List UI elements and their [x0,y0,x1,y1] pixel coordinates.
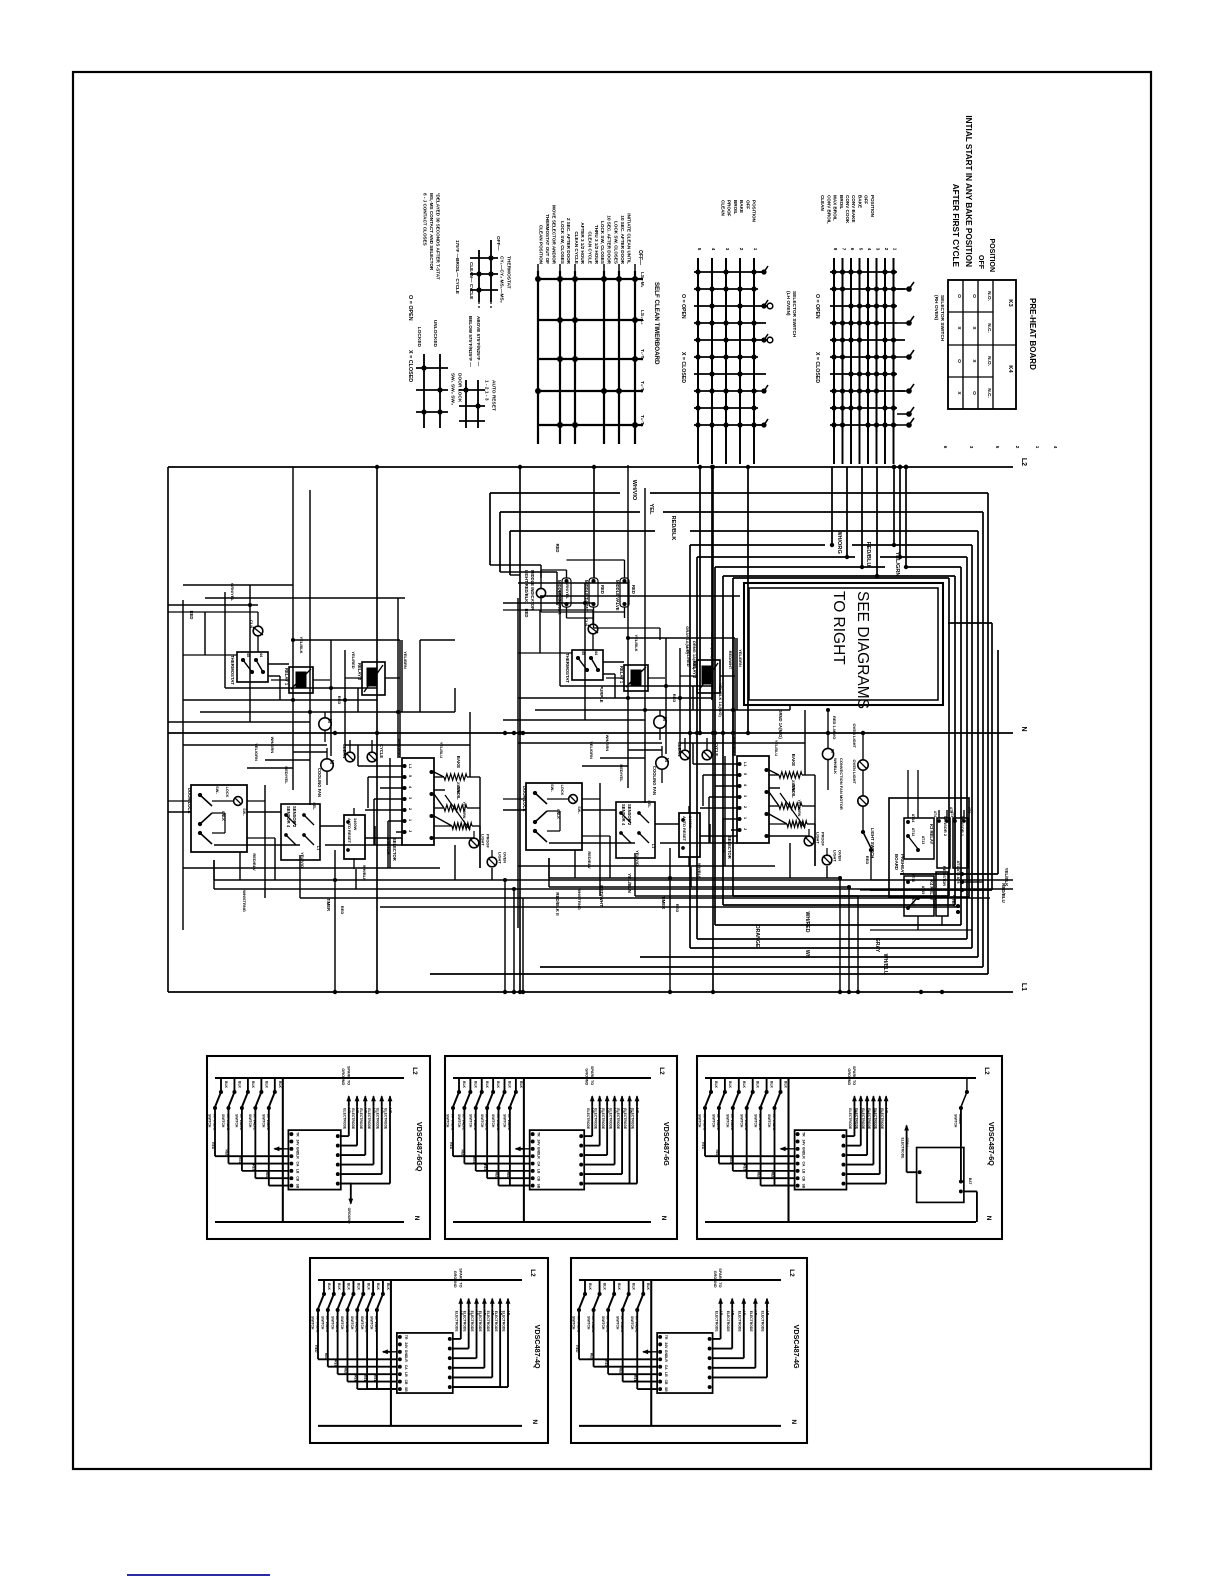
svg-text:RED: RED [337,696,342,705]
svg-text:LR: LR [537,1154,541,1159]
svg-text:RF VALVE: RF VALVE [345,1316,349,1333]
svg-text:CONV COOK: CONV COOK [845,195,850,224]
svg-text:ELECTRODE: ELECTRODE [478,1311,482,1333]
svg-text:WHT 1A(M/G): WHT 1A(M/G) [710,632,715,658]
svg-text:4: 4 [867,248,872,251]
svg-text:RED: RED [483,1164,487,1172]
svg-text:BLK: BLK [742,1081,746,1089]
svg-text:LOCK SW, CLOSES: LOCK SW, CLOSES [600,221,605,264]
svg-text:VDSC487-6GQ: VDSC487-6GQ [415,1122,424,1172]
svg-text:SWITCH: SWITCH [753,1114,757,1128]
svg-text:SWITCH: SWITCH [370,1316,374,1330]
svg-text:THERMOSTAT: THERMOSTAT [505,256,511,289]
svg-text:BLK: BLK [485,1081,489,1089]
svg-text:RED: RED [211,1142,215,1150]
svg-text:24V: 24V [404,1342,408,1349]
svg-text:OFF: OFF [864,195,869,204]
bus L2 [168,466,1013,468]
svg-text:RED/BLK: RED/BLK [670,516,676,541]
svg-text:SWITCH: SWITCH [954,1114,958,1128]
svg-text:ELECTRODE: ELECTRODE [462,1311,466,1333]
svg-text:LR: LR [802,1154,806,1159]
svg-text:WH/STRNG: WH/STRNG [242,890,247,912]
svg-text:BLK: BLK [714,1081,718,1089]
svg-text:BLK: BLK [278,1081,282,1089]
svg-text:8: 8 [833,248,838,251]
svg-text:SWITCH: SWITCH [330,1316,334,1330]
svg-text:GROUND: GROUND [713,1271,717,1288]
svg-text:BLK: BLK [462,1081,466,1089]
svg-text:OFF—: OFF— [637,250,643,265]
svg-text:LR: LR [664,1357,668,1362]
svg-text:SW₁: SW₁ [215,786,219,794]
svg-text:SEE DIAGRAMS: SEE DIAGRAMS [854,591,871,709]
selector switch device [358,739,474,868]
svg-text:RED: RED [555,544,560,553]
svg-text:TIMER: TIMER [326,898,331,911]
svg-text:BLK: BLK [224,1081,228,1089]
svg-text:(RH OVEN): (RH OVEN) [933,295,939,320]
svg-text:SWITCH: SWITCH [615,1316,619,1330]
svg-text:ELECTRODE: ELECTRODE [861,1108,865,1130]
svg-text:AUTO RESET: AUTO RESET [490,380,496,411]
svg-text:ELECTRODE: ELECTRODE [586,1108,590,1130]
wires selector to loops [892,465,908,569]
svg-text:AT2: AT2 [949,807,953,813]
svg-text:ELECTRODE: ELECTRODE [726,1311,730,1333]
svg-text:RED: RED [715,1150,719,1158]
svg-text:SWITCH: SWITCH [350,1316,354,1330]
svg-text:AT16: AT16 [911,874,915,883]
svg-text:POSITION: POSITION [752,200,757,223]
svg-text:RF VALVE: RF VALVE [266,1114,270,1131]
svg-text:N: N [790,1420,797,1425]
svg-text:LR: LR [295,1154,299,1159]
svg-text:SPARK TO: SPARK TO [346,1066,350,1085]
svg-text:ELECTRODE: ELECTRODE [367,1108,371,1130]
svg-text:BLK: BLK [588,1283,592,1291]
svg-text:BAT: BAT [968,1178,972,1186]
svg-text:BAKE: BAKE [456,756,461,769]
svg-text:ELECTRODE: ELECTRODE [749,1311,753,1333]
svg-text:ELECTRODE: ELECTRODE [608,1108,612,1130]
svg-text:O: O [956,294,962,298]
svg-text:T₅-T₆: T₅-T₆ [639,415,645,427]
preheat board outline [889,798,969,897]
svg-text:L1: L1 [316,846,320,850]
svg-text:CLEAN CYCLE: CLEAN CYCLE [574,231,579,264]
svg-text:RED: RED [757,1172,761,1180]
svg-text:CLEAN POSITION: CLEAN POSITION [539,225,544,265]
svg-text:BLK: BLK [756,1081,760,1089]
svg-text:L2: L2 [411,1067,418,1075]
svg-text:CLEAN: CLEAN [820,195,825,212]
cycle lamp [367,740,384,762]
loop vertical labels [685,626,733,717]
svg-text:BLK: BLK [728,1081,732,1089]
svg-text:O: O [971,294,977,298]
svg-text:5: 5 [995,446,1000,449]
svg-text:RED: RED [340,906,345,915]
svg-text:RED: RED [334,1360,338,1368]
svg-text:J: J [408,830,412,832]
svg-text:SPARK TO: SPARK TO [458,1268,462,1287]
svg-text:RED: RED [251,1164,255,1172]
svg-text:10 SEC. AFTER DOOR: 10 SEC. AFTER DOOR [607,215,612,264]
middle igniter [557,570,571,618]
selector column feeds into diagram [698,465,879,735]
svg-text:RF VALVE: RF VALVE [450,1114,454,1131]
svg-text:GROUND: GROUND [347,1208,351,1224]
svg-text:K4: K4 [1007,365,1013,373]
svg-text:AT10: AT10 [932,896,936,904]
svg-text:BAKE: BAKE [857,195,862,208]
svg-text:N.C.: N.C. [986,388,992,398]
svg-text:L2: L2 [1020,458,1027,466]
svg-text:1: 1 [1035,446,1040,449]
svg-text:SWITCH: SWITCH [698,1114,702,1128]
svg-text:RF VALVE: RF VALVE [496,1114,500,1131]
svg-text:GROUND: GROUND [453,1271,457,1288]
griddle wiring [490,544,660,640]
svg-text:6: 6 [943,446,948,449]
relay 1 [271,667,330,693]
sub-diagram box VDSC487-4G [571,1258,807,1443]
svg-text:LB: LB [295,1169,299,1174]
svg-text:¹DELAYED 30 SECONDS AFTER T-ST: ¹DELAYED 30 SECONDS AFTER T-STAT [435,193,440,280]
svg-text:BLK: BLK [386,1283,390,1291]
svg-text:RED: RED [575,1345,579,1353]
svg-text:CA: CA [404,1365,408,1370]
svg-text:AT5: AT5 [956,869,960,876]
svg-text:SB: SB [802,1184,806,1189]
svg-text:ELECTRODE: ELECTRODE [359,1108,363,1130]
svg-text:RED: RED [472,1157,476,1165]
svg-text:RED: RED [460,1150,464,1158]
svg-text:RELAY 1: RELAY 1 [284,668,289,686]
svg-text:GROUND: GROUND [847,1068,851,1085]
svg-text:POSITION: POSITION [870,195,875,218]
svg-text:YEL/VIO: YEL/VIO [300,852,305,868]
svg-text:LB: LB [404,1372,408,1377]
svg-text:BLK: BLK [237,1081,241,1089]
sub-diagram box VDSC487-6Q [697,1056,1002,1239]
clean resistor and lamp [434,795,491,848]
wire cluster feeder [168,600,258,930]
svg-text:L1: L1 [408,764,412,768]
sub-diagram box VDSC487-6G [445,1056,677,1239]
svg-text:DOOR LOCK: DOOR LOCK [456,373,462,403]
svg-text:RED/BLU: RED/BLU [865,542,871,567]
svg-text:RF VALVE: RF VALVE [507,1114,511,1131]
svg-text:SWITCH: SWITCH [572,1316,576,1330]
svg-text:SWITCH: SWITCH [491,1114,495,1128]
svg-text:RESISTOR: RESISTOR [942,866,947,886]
box SEE DIAGRAMS TO RIGHT [744,583,943,709]
svg-text:WH/ORG: WH/ORG [836,530,842,554]
svg-text:RED: RED [604,1360,608,1368]
footer link underline [127,1574,270,1576]
selector switch LH oven labels [680,200,797,383]
svg-text:PURPLE: PURPLE [599,686,604,703]
svg-text:BLK: BLK [632,1283,636,1291]
svg-text:RF VALVE: RF VALVE [758,1114,762,1131]
svg-text:RED: RED [224,1150,228,1158]
svg-text:ELECTRODE: ELECTRODE [502,1311,506,1333]
svg-text:ELECTRODE: ELECTRODE [761,1311,765,1333]
svg-text:ELECTRODE: ELECTRODE [455,1311,459,1333]
svg-text:1400W: 1400W [353,818,358,831]
svg-text:RED: RED [324,1353,328,1361]
svg-text:SELECTOR SWITCH: SELECTOR SWITCH [791,291,797,338]
svg-text:3: 3 [876,248,881,251]
svg-text:AFTER FIRST CYCLE: AFTER FIRST CYCLE [951,184,960,268]
svg-text:AT12: AT12 [911,828,915,837]
svg-text:SWITCH: SWITCH [248,1114,252,1128]
svg-text:RED: RED [590,1353,594,1361]
selector switch RH oven labels [814,195,945,383]
svg-text:RF VALVE: RF VALVE [355,1316,359,1333]
auto reset legend symbol [459,380,485,428]
timerboard column notes [539,205,632,265]
svg-text:SWITCH: SWITCH [739,1114,743,1128]
svg-text:SWITCH: SWITCH [235,1114,239,1128]
svg-text:5: 5 [408,775,412,777]
svg-text:TO RIGHT: TO RIGHT [830,591,847,665]
right side verticals [870,623,998,890]
svg-text:LIGHT: LIGHT [497,852,502,864]
svg-text:BLK: BLK [473,1081,477,1089]
pre-heat board table [948,280,1016,409]
svg-text:8 - J CONTACT CLOSES: 8 - J CONTACT CLOSES [423,193,428,246]
svg-text:SWITCH: SWITCH [712,1114,716,1128]
svg-text:YEL/GRN: YEL/GRN [462,802,466,819]
relay 2 [345,662,400,695]
svg-text:CLEAN: CLEAN [721,200,726,217]
svg-text:GROUND: GROUND [585,1068,589,1085]
svg-text:10 SEC. AFTER DOOR: 10 SEC. AFTER DOOR [620,215,625,264]
svg-text:RED: RED [771,1172,775,1180]
svg-text:ELECTRODE: ELECTRODE [880,1108,884,1130]
convection fan motor RH [822,708,843,810]
svg-text:RED/WHT: RED/WHT [599,885,604,907]
svg-text:1: 1 [753,248,758,251]
svg-text:GROUND: GROUND [341,1068,345,1085]
svg-text:O = OPEN: O = OPEN [680,294,686,319]
svg-text:RED: RED [189,611,194,620]
svg-text:YEL/BLN: YEL/BLN [627,873,632,893]
svg-text:GRN/YEL: GRN/YEL [230,583,235,601]
svg-text:WH/GRN: WH/GRN [270,737,275,754]
svg-text:SW₁ SW₂ SW₃: SW₁ SW₂ SW₃ [450,373,456,405]
left-only wires [420,640,455,712]
svg-text:SELF CLEAN TIMERBOARD: SELF CLEAN TIMERBOARD [653,282,660,365]
svg-text:WH/RED: WH/RED [804,911,810,932]
svg-text:RED: RED [343,1368,347,1376]
svg-text:TR: TR [537,1132,541,1137]
svg-text:ORANGE: ORANGE [754,925,760,948]
svg-text:3: 3 [725,248,730,251]
svg-text:OVEN LIGHT: OVEN LIGHT [852,724,857,749]
light switch [861,824,889,880]
svg-text:O = OPEN: O = OPEN [407,295,413,321]
svg-text:L2: L2 [529,1269,536,1277]
svg-text:L2: L2 [658,1067,665,1075]
svg-text:RED/YEL: RED/YEL [284,766,289,784]
svg-text:BELOW 575°F/N25°F —: BELOW 575°F/N25°F — [468,316,473,367]
thermostat legend symbol [470,240,498,310]
svg-text:ELECTRODE: ELECTRODE [494,1311,498,1333]
svg-text:X = CLOSED: X = CLOSED [680,352,686,383]
door lock legend symbol [416,354,448,428]
svg-text:K3 RELAY: K3 RELAY [929,824,934,845]
svg-text:2: 2 [408,808,412,810]
svg-text:T₃-T₄: T₃-T₄ [639,381,645,394]
svg-text:1: 1 [408,819,412,821]
svg-text:RF VALVE: RF VALVE [335,1316,339,1333]
svg-text:OVEN LIGHT: OVEN LIGHT [852,760,857,785]
svg-text:2: 2 [884,248,889,251]
svg-text:RED: RED [743,1164,747,1172]
door lock legend labels [416,320,462,405]
svg-text:RED 1-M/VO: RED 1-M/VO [832,716,837,739]
note INTIAL START IN ANY BAKE POSITION AFTER FIRST CYCLE [951,115,973,267]
clean lamp [342,740,355,762]
svg-text:SWITCH: SWITCH [321,1316,325,1330]
svg-text:VDSC487-4G: VDSC487-4G [792,1325,801,1369]
border frame [73,72,1151,1469]
svg-text:SWITCH: SWITCH [630,1316,634,1330]
svg-text:BLK: BLK [327,1283,331,1291]
svg-text:COOLING FAN: COOLING FAN [317,768,322,797]
svg-text:BLK: BLK [264,1081,268,1089]
svg-text:UNLOCKED: UNLOCKED [432,320,438,348]
svg-text:OFF: OFF [745,200,750,209]
selector switch RH oven grid [830,258,914,432]
broil element resistor [434,786,480,811]
svg-text:SWITCH: SWITCH [586,1316,590,1330]
table header POSITION OFF [977,239,995,272]
svg-text:M: M [328,760,334,764]
svg-text:BROIL: BROIL [839,195,844,209]
svg-text:BROIL: BROIL [456,786,461,800]
svg-text:AT14: AT14 [911,814,915,823]
svg-text:3: 3 [969,446,974,449]
svg-text:SB: SB [664,1387,668,1392]
svg-text:O = OPEN: O = OPEN [814,294,820,319]
svg-text:LIGHT RED/BLK: LIGHT RED/BLK [524,570,529,602]
svg-text:RF VALVE: RF VALVE [635,1316,639,1333]
wire loop YEL/GRN [715,552,961,933]
svg-text:WH/BLK: WH/BLK [833,758,838,774]
svg-text:24V: 24V [295,1139,299,1146]
bus N [168,732,1013,734]
svg-text:ELECTRODE: ELECTRODE [631,1108,635,1130]
svg-text:YEL/RED: YEL/RED [351,651,356,668]
door lock switch box [168,785,275,852]
thermostat legend labels [455,236,511,303]
svg-text:175°F —BROIL— CYCLE: 175°F —BROIL— CYCLE [455,240,460,294]
indicator lamp top [249,612,263,652]
preheat terminals AT1 AT5 AT8 [952,861,964,915]
svg-text:SENSOR 2: SENSOR 2 [943,816,948,837]
svg-text:AFTER 3 1/2 HOUR: AFTER 3 1/2 HOUR [580,222,585,264]
svg-text:RF VALVE: RF VALVE [253,1114,257,1131]
svg-text:CA: CA [295,1162,299,1167]
svg-text:RF VALVE: RF VALVE [374,1316,378,1333]
svg-text:BOARD: BOARD [894,854,899,870]
svg-text:RED: RED [600,585,605,594]
svg-text:RED: RED [619,1368,623,1376]
svg-text:ELECTRODE: ELECTRODE [593,1108,597,1130]
svg-text:THRU 3 1/2 HOUR: THRU 3 1/2 HOUR [594,225,599,265]
oven light lamps RH [852,724,868,824]
svg-text:LB: LB [664,1372,668,1377]
middle valve [615,570,636,618]
svg-text:CB: CB [404,1380,408,1385]
svg-text:CA: CA [537,1162,541,1167]
svg-text:RED: RED [701,1142,705,1150]
svg-text:CB: CB [802,1176,806,1181]
svg-text:TR: TR [664,1335,668,1340]
svg-text:N: N [531,1420,538,1425]
svg-text:CB: CB [295,1176,299,1181]
right oven cluster (duplicate) [503,465,858,990]
svg-text:SB: SB [537,1184,541,1189]
svg-text:SWITCH: SWITCH [503,1114,507,1128]
svg-text:4: 4 [711,248,716,251]
svg-text:2 SEC. AFTER DOOR: 2 SEC. AFTER DOOR [566,218,571,265]
selector switch terminal numbers [943,446,1058,449]
svg-text:RF VALVE: RF VALVE [473,1114,477,1131]
K3 relay [904,814,934,859]
svg-text:X = CLOSED: X = CLOSED [407,350,413,382]
svg-text:RF VALVE: RF VALVE [315,1316,319,1333]
svg-text:ELECTRODE: ELECTRODE [351,1108,355,1130]
svg-text:RED: RED [363,1375,367,1383]
svg-text:6: 6 [850,248,855,251]
svg-text:5: 5 [697,248,702,251]
svg-text:AT13: AT13 [921,836,925,845]
svg-text:RED/BLV: RED/BLV [252,853,257,871]
svg-text:24V: 24V [664,1342,668,1349]
svg-text:AT6: AT6 [967,807,971,813]
svg-text:SWITCH: SWITCH [767,1114,771,1128]
wire loop RED/BLU [697,542,967,948]
svg-text:BLK: BLK [251,1081,255,1089]
svg-text:SELECTOR: SELECTOR [392,838,397,861]
svg-text:BLK: BLK [366,1283,370,1291]
svg-text:CA: CA [802,1162,806,1167]
middle t-stat [584,578,605,618]
svg-text:MS,-MS CONTACT AND SELECTOR: MS,-MS CONTACT AND SELECTOR [429,193,434,271]
svg-text:1: 1 [893,248,898,251]
svg-text:CB: CB [664,1380,668,1385]
svg-text:VDSC487-6Q: VDSC487-6Q [987,1122,996,1166]
svg-text:RF VALVE: RF VALVE [772,1114,776,1131]
svg-text:RED: RED [265,1172,269,1180]
svg-text:LB: LB [802,1169,806,1174]
oven light lamp [487,850,507,867]
svg-text:O: O [971,391,977,395]
svg-text:THERMOSTAT: THERMOSTAT [230,655,235,685]
svg-text:ELECTRODE: ELECTRODE [375,1108,379,1130]
svg-text:RF VALVE: RF VALVE [702,1114,706,1131]
svg-text:SWITCH: SWITCH [311,1316,315,1330]
cluster wires upper [168,467,470,805]
svg-text:RED: RED [865,856,870,865]
svg-text:BLK: BLK [347,1283,351,1291]
